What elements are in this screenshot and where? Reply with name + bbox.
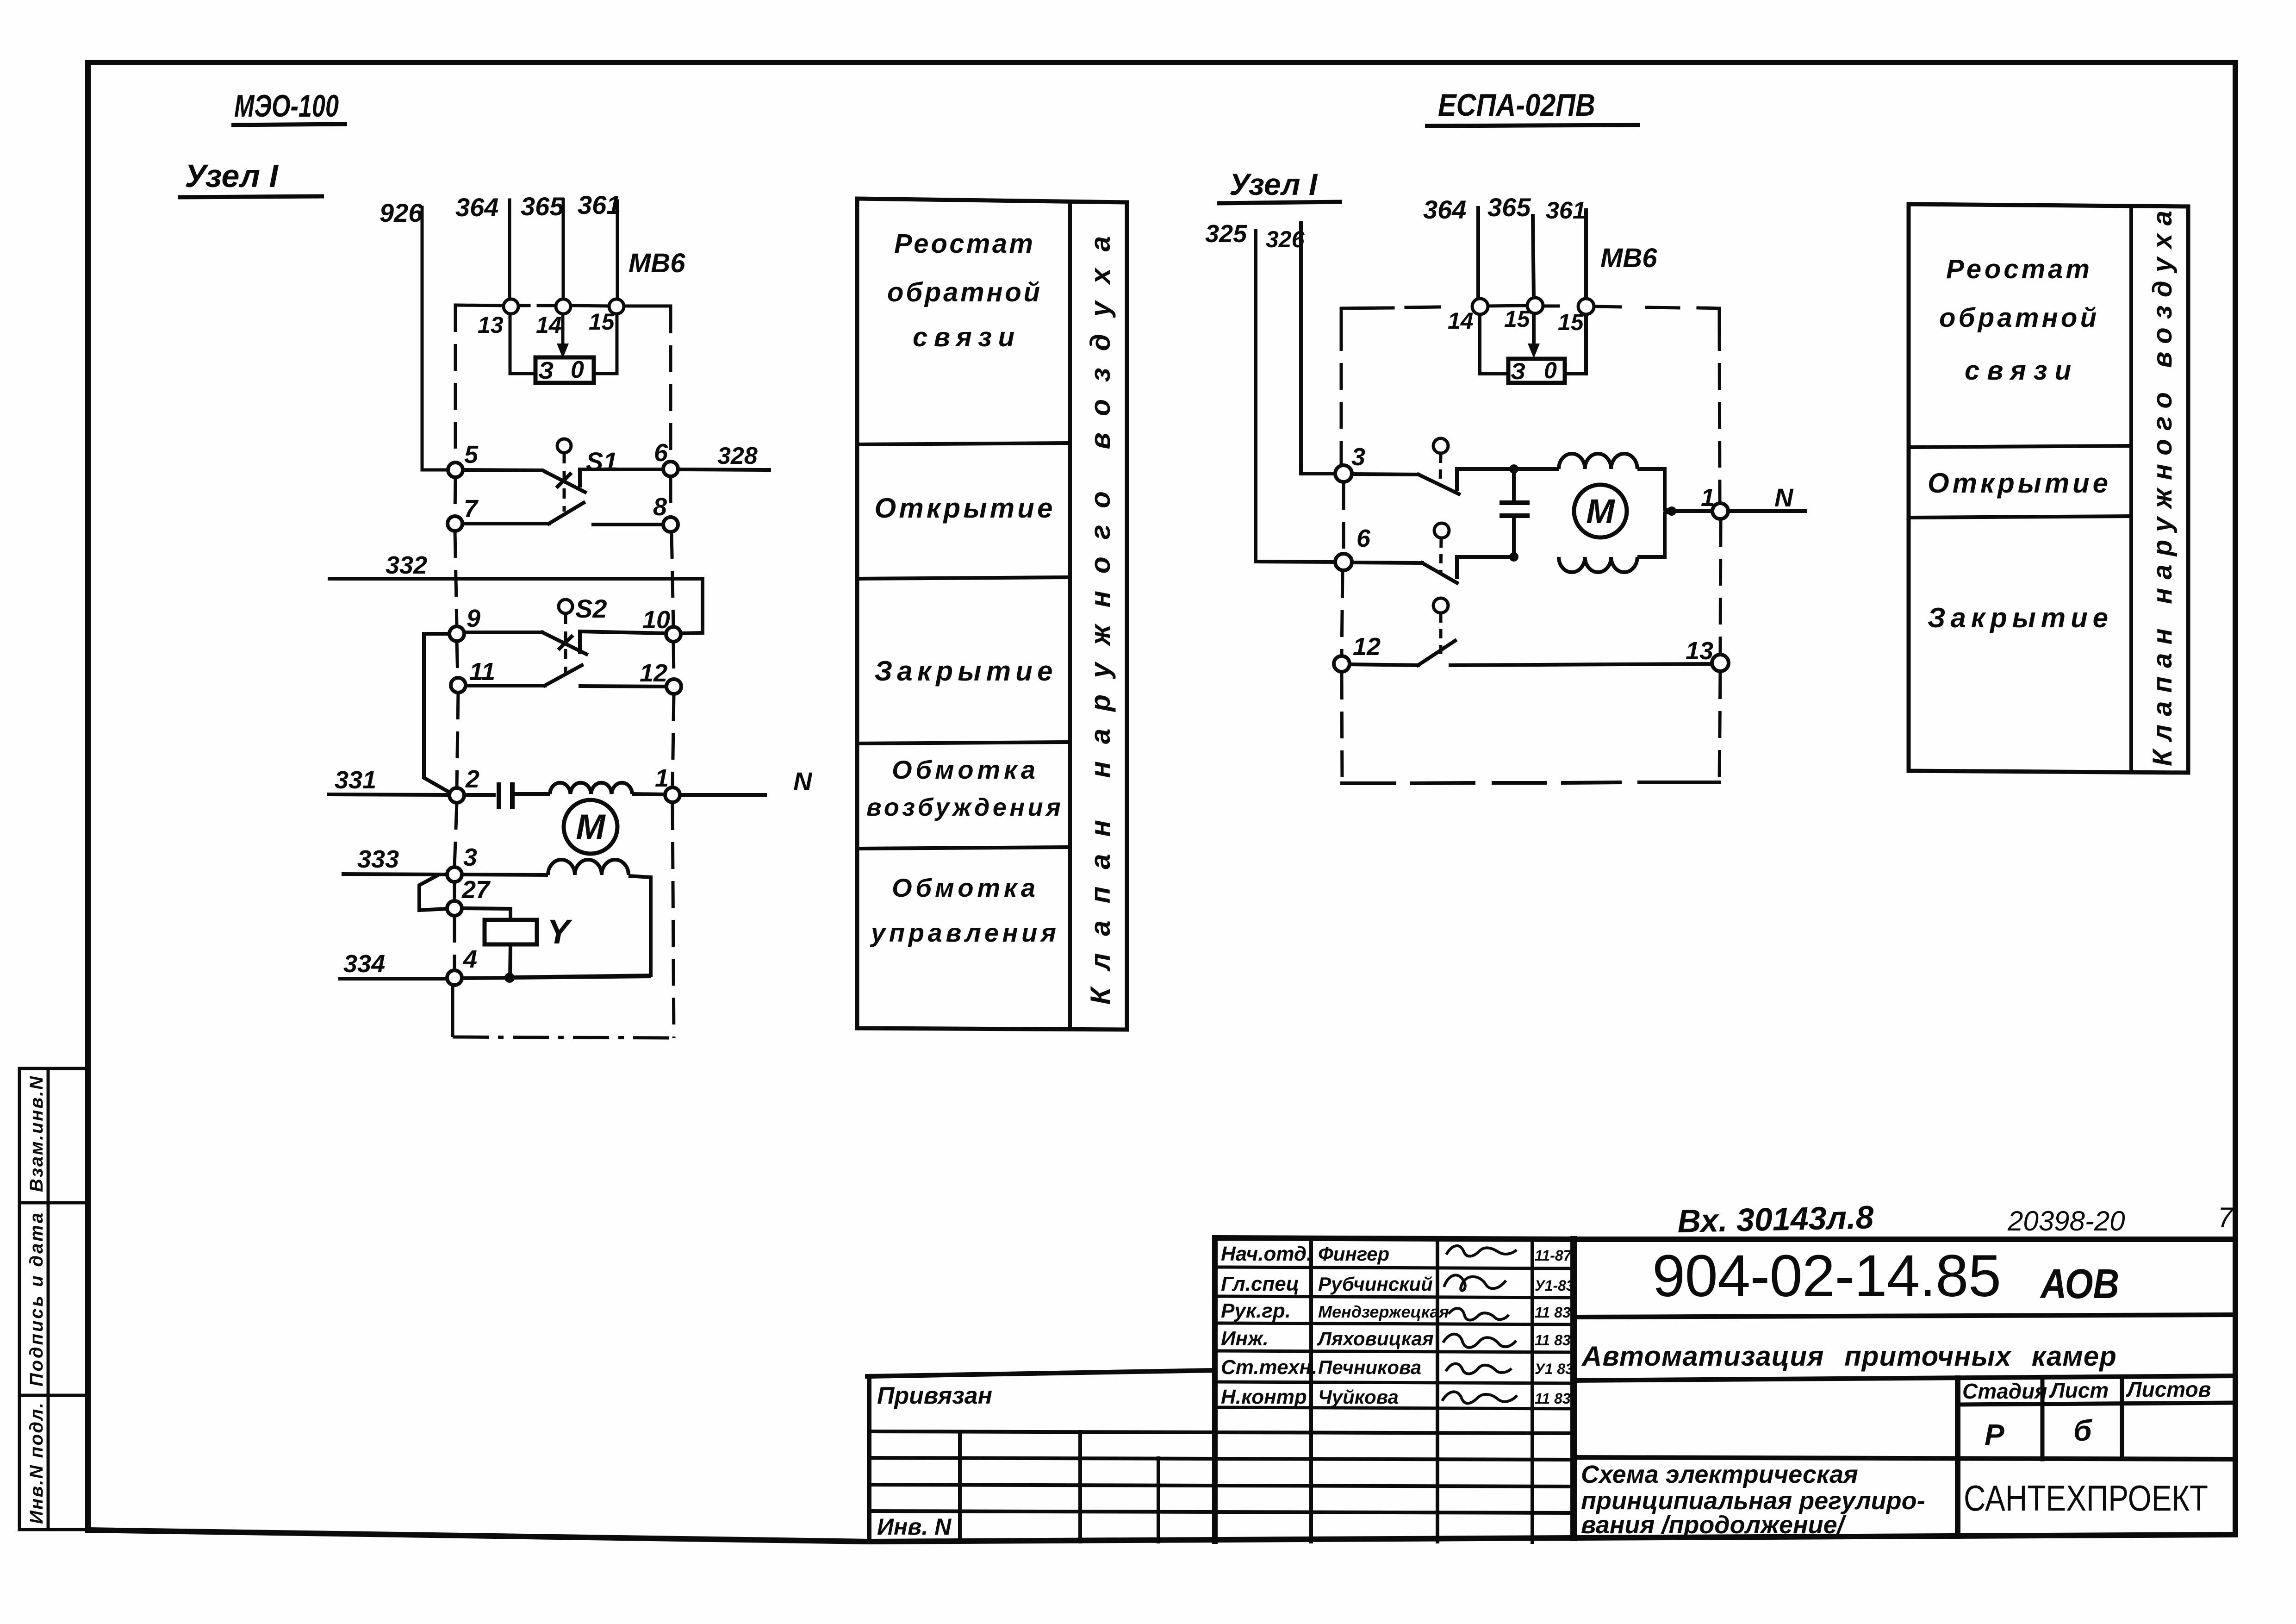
svg-text:Р: Р: [1985, 1418, 2004, 1451]
svg-text:Н.контр: Н.контр: [1221, 1386, 1307, 1408]
left table row line 3: [857, 742, 1070, 743]
svg-text:11-87: 11-87: [1535, 1247, 1573, 1264]
МЭО enclosure dashed right boundary: [671, 306, 674, 1038]
svg-text:332: 332: [386, 551, 427, 579]
wire 326 feeder: [1301, 223, 1336, 474]
svg-text:0: 0: [1544, 357, 1557, 383]
svg-text:Рук.гр.: Рук.гр.: [1221, 1299, 1291, 1322]
svg-text:2: 2: [465, 765, 479, 793]
wire hook 333 to node 27: [419, 875, 447, 910]
feedback rheostat box З|0: [535, 357, 594, 383]
wire 334: [338, 977, 447, 981]
title block row line below Автоматизация: [1574, 1376, 2235, 1380]
svg-text:Подпись и дата: Подпись и дата: [26, 1213, 47, 1387]
Стадия header bottom line: [1958, 1403, 2235, 1405]
svg-text:S2: S2: [575, 594, 607, 623]
wire node5 to S1 blade: [463, 470, 546, 472]
svg-text:7: 7: [2218, 1202, 2234, 1233]
contact 3 dashed stem: [1440, 454, 1441, 484]
S1 lower blade rising: [549, 503, 584, 524]
terminal 13 circle: [504, 299, 518, 314]
contact 12 button circle: [1433, 598, 1448, 613]
wire relay Y to bottom rail: [510, 944, 510, 977]
wire 365 drop with arrow (right): [1532, 313, 1536, 346]
svg-text:334: 334: [343, 950, 385, 978]
svg-text:11: 11: [469, 658, 495, 686]
contact 12 dashed stem: [1439, 613, 1443, 657]
svg-text:Открытие: Открытие: [875, 493, 1053, 524]
title block row line below 904: [1574, 1315, 2235, 1317]
S2 lower blade rising: [545, 665, 582, 686]
bottom rail right corner up to motor junction: [1637, 511, 1671, 557]
divider Схема / САНТЕХПРОЕКТ: [1955, 1378, 1960, 1536]
svg-text:обратной: обратной: [1939, 303, 2097, 333]
svg-text:15: 15: [1504, 306, 1531, 332]
svg-text:4: 4: [463, 945, 477, 973]
svg-text:Открытие: Открытие: [1928, 468, 2108, 499]
svg-text:1: 1: [1701, 484, 1715, 512]
underline Узел I (left): [178, 196, 324, 197]
svg-text:11 83: 11 83: [1535, 1332, 1571, 1349]
svg-text:Стадия: Стадия: [1962, 1379, 2047, 1403]
svg-text:Узел I: Узел I: [1229, 167, 1318, 201]
svg-text:331: 331: [335, 766, 376, 794]
svg-text:14: 14: [536, 312, 562, 338]
wire node9 to S2 blade: [465, 631, 542, 634]
ЕСПА enclosure dashed top boundary: [1341, 306, 1719, 324]
svg-text:Реостат: Реостат: [894, 229, 1033, 259]
node 3 (right): [1335, 465, 1352, 482]
contact 3 button circle: [1433, 438, 1448, 453]
S1 dashed actuator stem: [563, 453, 566, 512]
motor top winding coil (right): [1559, 454, 1637, 469]
wire hook node9 to node2: [424, 634, 450, 793]
wire N: [680, 793, 767, 797]
wire 926 feeder: [422, 207, 448, 470]
wire node7 to S1 lower blade: [462, 522, 549, 525]
wire 365 feeder: [562, 200, 565, 300]
contact 3 wire and blade: [1352, 469, 1513, 494]
feedback rheostat box З|0 (right): [1508, 359, 1565, 383]
title underline МЭО-100: [231, 124, 347, 125]
wire 361 drop to resistor box: [594, 314, 617, 374]
node 3 (left): [447, 867, 462, 882]
svg-text:Чуйкова: Чуйкова: [1318, 1386, 1399, 1408]
svg-text:М: М: [576, 807, 606, 847]
wire N (right): [1728, 509, 1807, 513]
right table row line 1: [1909, 446, 2131, 447]
capacitor stem bottom (right): [1512, 518, 1516, 557]
node 1: [665, 787, 680, 802]
svg-text:S1: S1: [586, 447, 618, 476]
node 12: [666, 679, 681, 694]
svg-text:б: б: [2073, 1414, 2093, 1447]
S2 dashed actuator stem: [564, 614, 567, 674]
svg-text:вания /продолжение/: вания /продолжение/: [1581, 1511, 1847, 1539]
svg-text:М: М: [1586, 492, 1615, 531]
motor M circle (left): [564, 800, 617, 854]
svg-text:САНТЕХПРОЕКТ: САНТЕХПРОЕКТ: [1964, 1478, 2208, 1518]
node 10: [666, 627, 681, 642]
svg-text:8: 8: [653, 493, 667, 521]
ЕСПА enclosure dashed right boundary: [1719, 324, 1721, 782]
node 4: [447, 970, 462, 985]
wire 361 feeder: [616, 201, 619, 300]
S1 upper blade: [546, 472, 585, 492]
wire node27 to relay Y: [462, 908, 510, 920]
svg-text:20398-20: 20398-20: [2007, 1206, 2125, 1237]
МЭО enclosure dashed left boundary: [454, 305, 458, 969]
S2 upper blade: [542, 632, 586, 654]
svg-text:361: 361: [1546, 197, 1586, 224]
wire 361 feeder (right): [1584, 210, 1588, 299]
sheet frame bottom edge: [88, 1530, 2235, 1542]
relay coil Y box: [485, 920, 537, 944]
svg-text:принципиальная регулиро-: принципиальная регулиро-: [1581, 1487, 1925, 1515]
svg-text:Закрытие: Закрытие: [875, 656, 1053, 687]
svg-text:364: 364: [1423, 195, 1466, 224]
svg-text:N: N: [1774, 483, 1794, 512]
node 7: [448, 516, 462, 531]
contact 6 wire and blade: [1352, 557, 1513, 583]
contact 12 wire and blade: [1350, 641, 1712, 665]
node 6 (right): [1335, 554, 1352, 570]
junction dot motor right: [1667, 506, 1676, 516]
node 5: [448, 462, 463, 477]
junction dot bottom rail: [1509, 552, 1518, 562]
top rail to winding (right): [1513, 467, 1559, 471]
wire 364 feeder: [508, 200, 511, 300]
svg-text:Ляховицкая: Ляховицкая: [1317, 1328, 1434, 1349]
svg-text:Рубчинский: Рубчинский: [1318, 1273, 1433, 1295]
svg-text:926: 926: [380, 198, 423, 227]
svg-text:3: 3: [1351, 443, 1365, 471]
svg-text:Закрытие: Закрытие: [1928, 602, 2108, 633]
svg-text:ЕСПА-02ПВ: ЕСПА-02ПВ: [1438, 87, 1595, 123]
МЭО enclosure bottom dash-dot boundary: [453, 985, 674, 1038]
switch S1 button circle: [557, 439, 571, 453]
left table row line 2: [857, 577, 1070, 579]
svg-text:7: 7: [464, 495, 479, 523]
left margin stamp box: [19, 1068, 88, 1530]
left table inner divider: [1068, 201, 1072, 1029]
svg-text:АОВ: АОВ: [2040, 1261, 2119, 1307]
svg-text:Взам.инв.N: Взам.инв.N: [26, 1076, 47, 1192]
svg-text:Привязан: Привязан: [877, 1382, 992, 1409]
svg-text:Лист: Лист: [2049, 1378, 2109, 1402]
svg-text:5: 5: [464, 441, 479, 468]
svg-text:обратной: обратной: [887, 277, 1040, 307]
svg-text:9: 9: [467, 605, 480, 632]
capacitor C plates: [499, 782, 512, 809]
control winding coil (обмотка управления): [548, 860, 628, 875]
svg-text:1: 1: [655, 764, 669, 792]
node 12 (right): [1334, 656, 1350, 672]
svg-text:328: 328: [717, 443, 758, 469]
right table outer box: [1909, 204, 2188, 773]
svg-text:Инв.N подл.: Инв.N подл.: [26, 1403, 47, 1524]
svg-text:Фингер: Фингер: [1318, 1243, 1389, 1265]
svg-text:325: 325: [1205, 220, 1247, 248]
right table inner divider: [2129, 206, 2133, 772]
terminal 15 circle (right mid): [1527, 298, 1543, 313]
svg-text:Ст.техн.: Ст.техн.: [1221, 1356, 1317, 1379]
capacitor plates (right): [1500, 503, 1530, 516]
wire node11 to S2 lower blade: [466, 684, 545, 687]
field winding coil (обмотка возбуждения): [550, 783, 632, 794]
svg-text:N: N: [793, 767, 813, 796]
svg-text:12: 12: [640, 659, 667, 687]
svg-text:0: 0: [571, 356, 584, 383]
svg-text:Нач.отд.: Нач.отд.: [1221, 1243, 1312, 1265]
junction dot node4 rail: [504, 973, 515, 983]
top rail right corner down to motor junction: [1637, 469, 1671, 511]
svg-text:З: З: [1511, 358, 1525, 384]
svg-text:Автоматизация приточных камер: Автоматизация приточных камер: [1581, 1341, 2117, 1372]
svg-text:13: 13: [478, 312, 504, 338]
svg-text:11 83: 11 83: [1535, 1304, 1571, 1321]
node 1 (right): [1712, 503, 1728, 519]
svg-text:Инж.: Инж.: [1221, 1327, 1269, 1350]
svg-text:Вх. 30143л.8: Вх. 30143л.8: [1677, 1199, 1874, 1239]
terminal 15 circle (right outer): [1578, 299, 1594, 314]
node 9: [449, 626, 464, 641]
terminal 14 circle (right): [1472, 299, 1488, 314]
svg-text:МВ6: МВ6: [628, 248, 685, 278]
signature table grid: [1215, 1238, 1574, 1542]
title underline ЕСПА: [1425, 125, 1640, 126]
svg-text:10: 10: [642, 606, 670, 634]
node 8: [663, 517, 678, 532]
svg-text:Y: Y: [547, 912, 572, 951]
svg-text:365: 365: [521, 192, 564, 221]
contact 6 button circle: [1434, 523, 1449, 538]
left table outer box: [857, 199, 1127, 1030]
motor bottom winding coil (right): [1559, 557, 1637, 572]
wire 331: [327, 794, 449, 795]
svg-text:27: 27: [461, 876, 491, 904]
svg-text:Инв. N: Инв. N: [877, 1514, 952, 1540]
arrow into feedback box (right 365): [1528, 344, 1540, 358]
wire 365 feeder (right): [1533, 216, 1534, 298]
node 6: [663, 462, 678, 476]
svg-text:З: З: [538, 357, 554, 384]
svg-text:Печникова: Печникова: [1318, 1356, 1421, 1378]
wire 333: [342, 874, 447, 874]
wire capacitor to field winding: [515, 792, 550, 796]
svg-text:333: 333: [357, 845, 399, 873]
title block top edge: [1574, 1237, 2235, 1242]
wire 361 drop to box (right): [1565, 314, 1586, 374]
motor M circle (right): [1574, 485, 1627, 537]
svg-text:У1-83: У1-83: [1535, 1277, 1574, 1294]
capacitor stem top (right): [1512, 469, 1516, 501]
svg-text:365: 365: [1487, 193, 1531, 222]
svg-text:Мендзержецкая: Мендзержецкая: [1318, 1302, 1449, 1321]
svg-text:Гл.спец: Гл.спец: [1221, 1273, 1299, 1295]
arrow into feedback box (365): [557, 344, 569, 358]
wire node4 bottom rail: [462, 976, 651, 978]
terminal 14 circle: [556, 299, 571, 314]
svg-text:Схема электрическая: Схема электрическая: [1581, 1461, 1858, 1488]
wire node3 to control winding: [462, 874, 548, 875]
svg-text:3: 3: [463, 843, 477, 871]
svg-text:12: 12: [1353, 633, 1381, 661]
wire S2 lower right to node12: [580, 686, 666, 687]
svg-text:15: 15: [589, 309, 615, 335]
ЕСПА enclosure dashed bottom boundary: [1342, 782, 1719, 783]
svg-text:14: 14: [1448, 308, 1474, 334]
S2 right jog to node10: [580, 631, 666, 652]
svg-text:361: 361: [578, 190, 621, 219]
S2 upper blade tick: [560, 637, 572, 649]
wire 364 feeder (right): [1476, 208, 1480, 299]
node 11: [451, 678, 466, 693]
switch S2 button circle: [559, 600, 572, 613]
svg-text:11 83: 11 83: [1535, 1390, 1571, 1407]
привязан block grid: [867, 1370, 1574, 1542]
wire S1 lower right to node8: [593, 523, 663, 526]
wire coil to node 1: [632, 794, 665, 794]
wire 364 drop to box (right): [1480, 314, 1508, 374]
wire motor junction to node 1 (right): [1672, 509, 1712, 513]
wire 332: [328, 579, 703, 633]
left table row line 4: [857, 847, 1070, 849]
svg-text:364: 364: [455, 193, 498, 222]
node 27: [447, 901, 462, 916]
S1 right jog: [580, 469, 663, 486]
wire 365 drop with arrow to box: [561, 314, 565, 346]
S1 upper blade tick: [558, 474, 570, 487]
Схема band top line: [1574, 1457, 2235, 1459]
svg-text:МВ6: МВ6: [1600, 243, 1657, 273]
node 2: [449, 788, 464, 803]
svg-text:326: 326: [1266, 226, 1305, 252]
svg-text:Реостат: Реостат: [1946, 254, 2090, 284]
divider Лист/Листов: [2120, 1377, 2124, 1459]
divider Стадия/Лист: [2041, 1378, 2045, 1459]
ЕСПА enclosure dashed left boundary: [1341, 324, 1344, 783]
svg-text:Листов: Листов: [2126, 1377, 2211, 1401]
svg-text:15: 15: [1558, 309, 1584, 335]
svg-text:6: 6: [1356, 525, 1371, 552]
contact 6 dashed stem: [1441, 538, 1441, 574]
title block outer left edge: [1570, 1239, 1577, 1538]
svg-text:возбуждения: возбуждения: [866, 793, 1061, 821]
wire terminal row horizontal: [455, 305, 503, 306]
wire control winding loop right side: [514, 876, 651, 977]
wire 364 drop to resistor box: [510, 314, 535, 374]
svg-text:У1 83: У1 83: [1535, 1361, 1574, 1377]
junction dot top rail: [1509, 464, 1518, 474]
svg-text:6: 6: [654, 439, 668, 467]
svg-text:13: 13: [1686, 637, 1713, 665]
underline Узел I (right): [1217, 202, 1342, 203]
node 13 (right): [1712, 655, 1729, 671]
left table row line 1: [857, 443, 1070, 444]
svg-text:904-02-14.85: 904-02-14.85: [1652, 1243, 2004, 1309]
terminal 15 circle: [609, 299, 624, 314]
svg-text:МЭО-100: МЭО-100: [234, 88, 339, 124]
wire 325 feeder: [1256, 231, 1336, 562]
wire 328 from node 6: [678, 469, 769, 470]
right table row line 2: [1909, 516, 2131, 518]
wire node2 to capacitor: [464, 793, 496, 797]
svg-text:Узел I: Узел I: [185, 158, 279, 194]
